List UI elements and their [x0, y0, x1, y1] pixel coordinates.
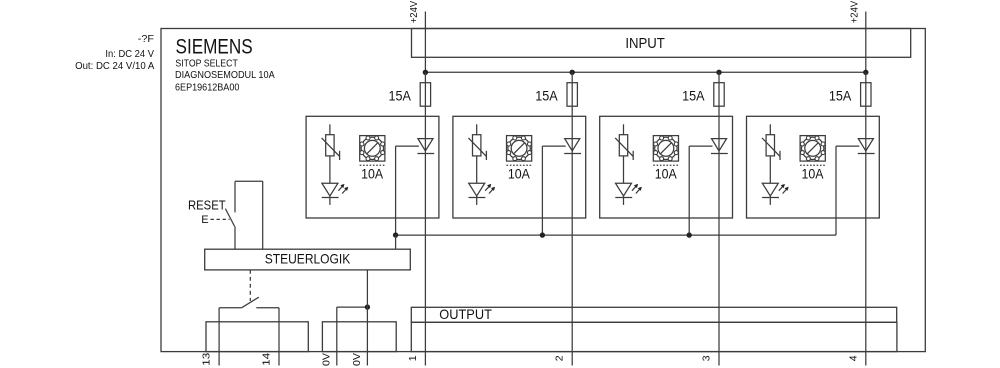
svg-text:13: 13: [200, 353, 212, 366]
svg-text:2: 2: [554, 355, 566, 361]
svg-text:SIEMENS: SIEMENS: [176, 34, 253, 58]
svg-text:10A: 10A: [655, 166, 677, 181]
svg-text:10A: 10A: [361, 166, 383, 181]
svg-text:6EP19612BA00: 6EP19612BA00: [175, 82, 240, 93]
svg-text:4: 4: [847, 355, 859, 361]
svg-text:10A: 10A: [508, 166, 530, 181]
svg-text:Out: DC 24 V/10 A: Out: DC 24 V/10 A: [75, 61, 155, 72]
svg-text:14: 14: [260, 353, 272, 366]
svg-text:15A: 15A: [389, 88, 412, 104]
svg-text:STEUERLOGIK: STEUERLOGIK: [265, 251, 351, 267]
svg-text:0V: 0V: [320, 353, 332, 366]
svg-text:E: E: [201, 214, 208, 226]
svg-text:1: 1: [407, 355, 419, 361]
svg-text:OUTPUT: OUTPUT: [439, 306, 492, 322]
svg-text:-?F: -?F: [138, 34, 154, 45]
svg-text:0V: 0V: [351, 353, 363, 366]
svg-text:In: DC 24 V: In: DC 24 V: [105, 49, 154, 60]
svg-text:15A: 15A: [535, 88, 558, 104]
svg-text:SITOP SELECT: SITOP SELECT: [175, 58, 237, 69]
svg-text:DIAGNOSEMODUL 10A: DIAGNOSEMODUL 10A: [175, 70, 275, 81]
svg-text:15A: 15A: [682, 88, 705, 104]
svg-text:10A: 10A: [802, 166, 824, 181]
svg-text:RESET: RESET: [188, 197, 226, 212]
svg-text:15A: 15A: [829, 88, 852, 104]
svg-text:+24V: +24V: [408, 1, 420, 24]
svg-text:3: 3: [701, 355, 713, 361]
svg-text:INPUT: INPUT: [625, 35, 665, 52]
svg-text:+24V: +24V: [849, 1, 861, 24]
